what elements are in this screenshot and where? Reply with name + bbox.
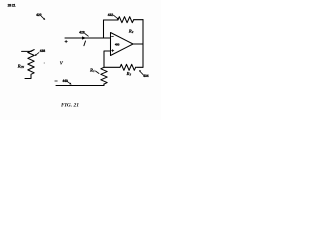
wire output: [133, 43, 143, 45]
wire inverting input stub: [104, 37, 111, 39]
wire input line: [65, 37, 104, 39]
svg-text:RIN: RIN: [18, 63, 25, 69]
resistor R2 zigzag: [118, 17, 134, 23]
arrowhead current i on input wire: [82, 36, 86, 39]
svg-text:428: 428: [79, 30, 85, 34]
arrowhead label 420: [43, 18, 45, 20]
op-amp plus input: [112, 50, 114, 52]
wire feedback top: [104, 19, 119, 21]
svg-text:420: 420: [36, 13, 42, 17]
lead arrow label R1 pointer: [96, 71, 100, 74]
wire feedback left vertical: [103, 20, 105, 38]
arrowhead label 434: [139, 70, 141, 72]
svg-text:440: 440: [63, 79, 69, 83]
resistor R3 zigzag: [120, 64, 136, 70]
stray dot: [43, 62, 46, 65]
resistor RIN zigzag: [28, 50, 34, 75]
wire R3 right: [137, 66, 144, 68]
svg-text:430: 430: [115, 42, 120, 46]
minus polarity: [55, 80, 58, 82]
lead arrow label 428: [85, 34, 89, 37]
svg-text:R3: R3: [127, 71, 132, 77]
svg-text:438: 438: [40, 49, 46, 53]
svg-text:434: 434: [143, 74, 149, 78]
wire R1 bottom to return: [56, 84, 104, 85]
svg-text:R1: R1: [90, 68, 95, 74]
arrowhead label 432: [117, 18, 119, 20]
op-amp U triangle: [111, 33, 134, 56]
resistor RIN bottom lead: [25, 75, 31, 79]
lead arrow label 434: [140, 71, 144, 75]
resistor RIN (left component) top lead: [22, 50, 31, 52]
resistor R1 zigzag: [101, 67, 107, 84]
lead arrow label 432: [114, 15, 118, 18]
svg-text:R2: R2: [129, 29, 134, 35]
arrowhead label 438: [35, 54, 37, 56]
wire feedback right to corner: [134, 19, 143, 21]
wire right vertical: [142, 20, 144, 68]
lead arrow label 420: [41, 16, 44, 19]
wire non-inverting input stub: [104, 51, 111, 67]
svg-text:432: 432: [108, 13, 114, 17]
arrowhead label 440: [69, 83, 71, 85]
lead arrow label 440: [67, 81, 71, 84]
label current i: [84, 41, 86, 46]
op-amp minus input: [112, 36, 114, 38]
plus polarity: [65, 40, 67, 42]
svg-text:FIG. 21: FIG. 21: [61, 103, 79, 109]
svg-text:28 21: 28 21: [8, 4, 16, 8]
lead arrow label 438: [36, 53, 39, 56]
wire node B to R3: [104, 66, 120, 68]
svg-text:V: V: [60, 61, 64, 66]
